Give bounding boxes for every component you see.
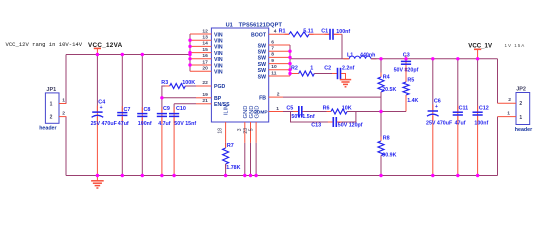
- svg-text:VCC_1V: VCC_1V: [468, 42, 493, 49]
- svg-text:1.78K: 1.78K: [226, 165, 240, 171]
- wire BP net: [162, 97, 196, 99]
- svg-text:20.5K: 20.5K: [382, 87, 396, 93]
- pin 22 PGD of U1: [196, 85, 211, 87]
- svg-text:1: 1: [507, 110, 510, 116]
- svg-text:C11: C11: [459, 106, 469, 112]
- svg-text:19: 19: [202, 92, 208, 98]
- wire GND pins to ground rail: [244, 143, 246, 176]
- pin 5 GND of U1: [255, 122, 257, 143]
- svg-text:1: 1: [519, 115, 522, 121]
- resistor R7: [225, 143, 227, 148]
- svg-text:15: 15: [202, 47, 208, 53]
- svg-text:+: +: [435, 104, 438, 110]
- svg-text:1: 1: [50, 102, 53, 108]
- svg-text:SW: SW: [258, 62, 266, 68]
- svg-text:50V/1.5nf: 50V/1.5nf: [291, 114, 314, 120]
- pin 16 VIN of U1: [190, 58, 211, 60]
- svg-text:7: 7: [271, 46, 274, 52]
- capacitor C9: [161, 98, 163, 113]
- svg-text:50V 15nf: 50V 15nf: [174, 121, 196, 127]
- wire SW bus: [289, 45, 291, 76]
- svg-text:5.11: 5.11: [303, 29, 313, 35]
- capacitor C6: [432, 59, 434, 111]
- svg-text:VIN: VIN: [214, 32, 223, 38]
- svg-text:VIN: VIN: [214, 57, 223, 63]
- header JP2: [516, 93, 530, 125]
- svg-text:C10: C10: [176, 106, 186, 112]
- svg-text:R5: R5: [407, 77, 414, 83]
- svg-text:R6: R6: [323, 105, 330, 111]
- pin 2 FB of U1: [269, 96, 283, 98]
- junction dots on output rail: [379, 57, 382, 60]
- svg-text:GND: GND: [255, 106, 261, 119]
- svg-text:C5: C5: [286, 105, 293, 111]
- wire JP2 pin1 to ground rail: [497, 117, 499, 176]
- svg-text:PGD: PGD: [214, 84, 225, 90]
- wire FB pin to divider node: [283, 97, 381, 111]
- wire R2 snubber from SW bus: [290, 73, 299, 75]
- svg-text:1: 1: [276, 106, 279, 112]
- svg-text:18: 18: [218, 128, 224, 134]
- pin 12 VIN of U1: [190, 33, 211, 35]
- svg-text:47uf: 47uf: [118, 121, 129, 127]
- junction dots on SW bus: [288, 50, 291, 53]
- ground: [340, 79, 351, 81]
- svg-text:VIN: VIN: [214, 45, 223, 51]
- svg-text:L1: L1: [347, 53, 353, 59]
- pin 3 GND of U1: [244, 122, 246, 143]
- pin 18 ILIM of U1: [225, 122, 227, 143]
- wire C13 parallel branch: [291, 112, 333, 123]
- svg-text:VIN: VIN: [214, 39, 223, 45]
- junction dots on VIN bus: [188, 39, 191, 42]
- wire VCC_12VA rail: [66, 54, 190, 56]
- svg-text:header: header: [515, 127, 532, 133]
- svg-text:2.2nf: 2.2nf: [342, 66, 355, 72]
- svg-text:2: 2: [50, 115, 53, 121]
- svg-text:1: 1: [310, 65, 313, 71]
- resistor R4: [380, 59, 382, 77]
- capacitor C8: [141, 55, 143, 113]
- svg-text:SW: SW: [258, 43, 266, 49]
- ground: [96, 176, 98, 181]
- capacitor C1: [325, 33, 330, 35]
- svg-text:4: 4: [274, 29, 277, 35]
- svg-text:R8: R8: [383, 136, 390, 142]
- svg-text:1: 1: [62, 97, 65, 103]
- svg-text:SW: SW: [258, 68, 266, 74]
- wire SW bus to L1: [290, 58, 349, 60]
- capacitor C5: [293, 111, 298, 113]
- svg-text:C1: C1: [321, 29, 328, 35]
- resistor R8: [380, 112, 382, 142]
- svg-text:12: 12: [202, 28, 208, 34]
- pin 1 of JP1: [59, 103, 66, 105]
- pin 19 BP of U1: [196, 97, 211, 99]
- svg-text:C9: C9: [163, 106, 170, 112]
- svg-text:50V 120pf: 50V 120pf: [338, 122, 363, 128]
- svg-text:440nh: 440nh: [360, 53, 375, 59]
- svg-text:VIN: VIN: [214, 63, 223, 69]
- capacitor C4: [96, 55, 98, 112]
- svg-text:100nf: 100nf: [474, 120, 488, 126]
- pin 11 SW of U1: [269, 75, 290, 77]
- op-amp U1 TPS56121DQPT box: [211, 28, 268, 122]
- wire R6 to FB node: [347, 111, 381, 113]
- svg-text:11: 11: [271, 70, 276, 76]
- svg-text:1.4K: 1.4K: [407, 98, 418, 104]
- svg-text:VCC_12VA: VCC_12VA: [88, 42, 123, 49]
- svg-text:C6: C6: [434, 99, 441, 105]
- svg-text:2: 2: [508, 97, 511, 103]
- svg-text:C2: C2: [324, 65, 331, 71]
- pin 21 EN/SS of U1: [196, 103, 211, 105]
- inductor L1: [344, 58, 350, 60]
- svg-text:VIN: VIN: [214, 51, 223, 57]
- resistor R1: [285, 33, 290, 35]
- resistor R3: [162, 86, 170, 98]
- pin 10 SW of U1: [269, 69, 290, 71]
- junction dot BP node: [160, 96, 163, 99]
- capacitor C11: [457, 59, 459, 111]
- wire C2 to ground: [341, 74, 345, 80]
- svg-text:SW: SW: [258, 56, 266, 62]
- svg-text:1V 15A: 1V 15A: [505, 43, 526, 48]
- svg-text:+: +: [100, 105, 103, 111]
- svg-text:JP2: JP2: [516, 86, 526, 92]
- pin 23 GND of U1: [250, 122, 252, 143]
- pin 7 SW of U1: [269, 50, 290, 52]
- svg-text:JP1: JP1: [46, 87, 56, 93]
- svg-text:8: 8: [271, 52, 274, 58]
- svg-text:ILIM: ILIM: [224, 104, 230, 115]
- wire ground rail: [66, 175, 498, 177]
- svg-text:VIN: VIN: [214, 70, 223, 76]
- wire R1 to C1: [309, 33, 329, 35]
- capacitor C10: [173, 104, 175, 113]
- svg-text:100K: 100K: [182, 80, 195, 86]
- wire JP1 pin1 riser to VCC_12VA rail: [65, 55, 67, 104]
- pin 4 BOOT of U1: [269, 33, 289, 35]
- junction dots on ground rail: [96, 174, 99, 177]
- pin 9 SW of U1: [269, 63, 290, 65]
- svg-text:14: 14: [202, 41, 208, 47]
- svg-text:25V 470uF: 25V 470uF: [426, 120, 453, 126]
- svg-text:U1: U1: [226, 22, 233, 28]
- svg-text:C12: C12: [479, 106, 489, 112]
- pin 1 COMP of U1: [269, 111, 283, 113]
- wire VCC_1V output rail: [371, 58, 498, 60]
- wire EN/SS net: [174, 103, 196, 105]
- svg-text:2: 2: [519, 101, 522, 107]
- svg-text:6: 6: [271, 39, 274, 45]
- svg-text:FB: FB: [259, 95, 266, 101]
- svg-text:C4: C4: [98, 99, 105, 105]
- pin 2 of JP2: [498, 102, 517, 104]
- wire FB node to R5: [381, 111, 406, 113]
- svg-text:2: 2: [277, 91, 280, 97]
- junction dots on VCC_12VA rail: [96, 53, 99, 56]
- capacitor C13: [328, 121, 333, 123]
- svg-text:TPS56121DQPT: TPS56121DQPT: [239, 22, 283, 28]
- pin 8 SW of U1: [269, 56, 290, 58]
- wire R2 to C2: [314, 73, 336, 75]
- svg-text:30.9K: 30.9K: [382, 153, 396, 159]
- pin 1 of JP2: [498, 116, 517, 118]
- svg-text:BOOT: BOOT: [251, 32, 267, 38]
- svg-text:R7: R7: [227, 143, 234, 149]
- capacitor C7: [121, 55, 123, 112]
- svg-text:47uf: 47uf: [455, 120, 466, 126]
- capacitor C2: [332, 73, 337, 75]
- svg-text:R3: R3: [161, 80, 168, 86]
- wire C1 to SW node: [334, 33, 342, 35]
- wire JP1 pin2 drop to ground rail: [65, 117, 67, 176]
- capacitor C12: [477, 59, 479, 111]
- capacitor C3: [405, 59, 407, 60]
- pin 14 VIN of U1: [190, 45, 211, 47]
- svg-text:header: header: [39, 126, 56, 132]
- header JP1: [45, 93, 59, 123]
- svg-text:2: 2: [62, 110, 65, 116]
- junction dot FB divider node: [379, 110, 382, 113]
- svg-text:100nf: 100nf: [138, 121, 152, 127]
- svg-text:C8: C8: [144, 107, 151, 113]
- svg-text:4.7uf: 4.7uf: [158, 121, 171, 127]
- svg-text:22: 22: [202, 80, 208, 86]
- wire COMP to C5: [283, 111, 297, 113]
- wire C5 to R6: [304, 111, 331, 113]
- wire VIN bus: [189, 34, 191, 71]
- svg-text:R4: R4: [383, 74, 390, 80]
- svg-text:C13: C13: [311, 122, 321, 128]
- pin 17 VIN of U1: [190, 64, 211, 66]
- pin 6 SW of U1: [269, 44, 290, 46]
- pin 2 of JP1: [59, 116, 66, 118]
- svg-text:C7: C7: [124, 107, 131, 113]
- svg-text:17: 17: [202, 59, 208, 65]
- svg-text:9: 9: [271, 58, 274, 64]
- svg-text:16: 16: [202, 53, 208, 59]
- svg-text:5: 5: [249, 128, 255, 131]
- pin 20 VIN of U1: [190, 70, 211, 72]
- pin 13 VIN of U1: [190, 39, 211, 41]
- wire output rail to JP2 pin2: [497, 59, 499, 104]
- resistor R5: [405, 65, 407, 82]
- resistor R6: [327, 111, 332, 113]
- svg-text:SW: SW: [258, 50, 266, 56]
- svg-text:20: 20: [202, 66, 208, 72]
- svg-text:VCC_12V rang in 10V-14V: VCC_12V rang in 10V-14V: [6, 41, 83, 48]
- svg-text:13: 13: [202, 35, 208, 41]
- resistor R2: [294, 73, 299, 75]
- svg-text:25V 470uF: 25V 470uF: [91, 121, 118, 127]
- svg-text:SW: SW: [258, 74, 266, 80]
- svg-text:10: 10: [271, 64, 277, 70]
- svg-text:21: 21: [202, 98, 208, 104]
- svg-text:R2: R2: [291, 65, 298, 71]
- svg-text:R1: R1: [279, 29, 286, 35]
- svg-text:10K: 10K: [342, 105, 352, 111]
- pin 15 VIN of U1: [190, 52, 211, 54]
